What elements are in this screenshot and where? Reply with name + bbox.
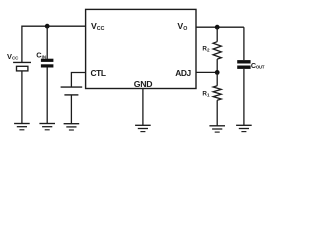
switch SW (CTL control contact plates) <box>61 87 83 95</box>
IC U1 body <box>86 9 196 88</box>
svg-text:VCC: VCC <box>91 21 105 32</box>
capacitor Cout (plates) <box>237 60 250 69</box>
ground (IC GND pin) <box>135 125 151 131</box>
ground (Cin) <box>39 124 55 130</box>
svg-text:R2: R2 <box>202 45 210 52</box>
ground (Cout) <box>236 125 252 131</box>
ground (battery) <box>14 124 30 130</box>
svg-text:CIN: CIN <box>36 51 46 60</box>
wire: R2 bottom lead to ADJ node <box>216 59 218 72</box>
wire: Cout top lead <box>243 27 245 60</box>
wire: R2 top lead <box>216 27 218 42</box>
ground (CTL switch) <box>64 124 80 130</box>
svg-text:R1: R1 <box>202 91 210 98</box>
svg-text:ADJ: ADJ <box>175 68 191 78</box>
resistor R2 (zigzag) <box>213 42 221 59</box>
wire: battery bottom lead <box>21 71 23 124</box>
ground (R1) <box>209 126 225 132</box>
wire: Vcc input net (battery top to IC Vcc pin) <box>22 26 86 62</box>
svg-text:CTL: CTL <box>91 68 106 78</box>
wire: Cin top lead <box>46 26 48 59</box>
svg-text:COUT: COUT <box>251 61 265 70</box>
wire: Vo output net (IC Vo pin to Cout) <box>196 26 244 28</box>
wire: Cout bottom lead <box>243 69 245 125</box>
wire: Cin bottom lead <box>46 67 48 123</box>
wire: CTL pin to switch <box>71 73 85 88</box>
node: junction dot on Vcc net at Cin branch <box>45 24 50 29</box>
battery V1 (input source symbol) <box>13 62 31 71</box>
wire: GND pin lead <box>142 89 144 126</box>
node: junction dot at ADJ node <box>215 70 220 75</box>
wire: ADJ pin wire <box>196 71 217 73</box>
capacitor Cin (plates) <box>41 59 54 68</box>
resistor R1 (zigzag) <box>213 86 221 100</box>
svg-text:VCC: VCC <box>7 52 19 61</box>
wire: R1 bottom lead <box>216 100 218 126</box>
svg-text:VO: VO <box>177 21 187 32</box>
node: junction dot on Vo net at R divider branch <box>215 25 220 30</box>
wire: switch bottom lead <box>70 95 72 124</box>
wire: R1 top lead <box>216 72 218 85</box>
svg-text:GND: GND <box>134 79 152 89</box>
